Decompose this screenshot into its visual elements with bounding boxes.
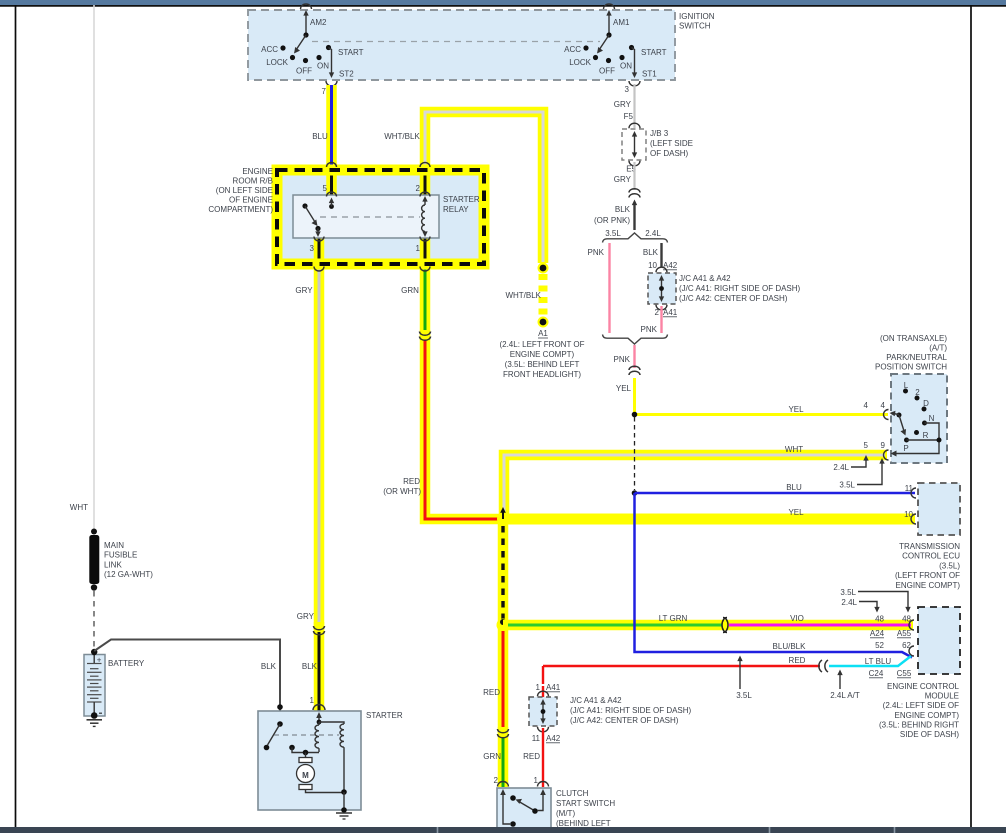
svg-text:BATTERY: BATTERY <box>108 659 145 668</box>
clutch start switch label <box>556 789 615 833</box>
wire GRY from ST1 <box>633 84 635 128</box>
connector RED/GRN <box>498 729 509 738</box>
ECM pin labels 48 48 <box>875 615 911 624</box>
wire VIO to ECM (highlighted) <box>729 624 911 627</box>
svg-text:A24: A24 <box>870 629 885 638</box>
svg-text:2: 2 <box>655 308 660 317</box>
svg-text:ST2: ST2 <box>339 70 354 79</box>
wire LT BLU to ECM <box>829 656 911 666</box>
svg-text:(OR PNK): (OR PNK) <box>594 216 630 225</box>
wire BLU/BLK down and to ECM <box>635 493 913 658</box>
park/neutral switch contacts <box>903 381 935 453</box>
node starter feed <box>277 704 283 710</box>
svg-text:3: 3 <box>310 244 315 253</box>
svg-text:62: 62 <box>902 641 911 650</box>
junction connector J/C A41 & A42 lower <box>529 691 557 732</box>
svg-text:11: 11 <box>905 484 914 493</box>
svg-text:RED: RED <box>483 688 500 697</box>
svg-text:3.5L: 3.5L <box>605 229 621 238</box>
svg-text:STARTER: STARTER <box>443 195 480 204</box>
svg-text:SIDE OF DASH): SIDE OF DASH) <box>900 730 959 739</box>
svg-text:P: P <box>903 444 908 453</box>
starter box <box>258 711 361 810</box>
relay pin entry arcs <box>314 163 430 272</box>
svg-text:YEL: YEL <box>788 405 804 414</box>
svg-text:(M/T): (M/T) <box>556 809 575 818</box>
svg-text:OFF: OFF <box>599 67 615 76</box>
mechanical link dashed line <box>312 41 600 43</box>
svg-text:STARTER: STARTER <box>366 711 403 720</box>
svg-text:BLU: BLU <box>786 483 802 492</box>
svg-text:PNK: PNK <box>614 355 631 364</box>
ignition switch AM2 pole <box>261 4 363 79</box>
TCU label <box>895 542 960 590</box>
starter switch <box>264 721 283 750</box>
relay switch <box>302 198 334 238</box>
bottom status bar <box>0 827 1006 833</box>
wire GRY relay pin 3 down (highlighted) <box>314 238 325 634</box>
transmission control ECU box <box>918 483 960 535</box>
svg-text:GRY: GRY <box>297 612 315 621</box>
svg-text:(J/C A41: RIGHT SIDE OF DASH): (J/C A41: RIGHT SIDE OF DASH) <box>570 706 692 715</box>
wire RED stub into J/C <box>542 686 544 697</box>
svg-text:OFF: OFF <box>296 67 312 76</box>
wire GRN relay pin 1 down (highlighted) <box>420 238 431 340</box>
svg-text:1: 1 <box>416 244 421 253</box>
svg-text:(LEFT FRONT OF: (LEFT FRONT OF <box>895 571 960 580</box>
pin 2 A41 label <box>655 308 678 317</box>
pin 1 A41 label <box>536 683 561 692</box>
svg-text:2.4L: 2.4L <box>645 229 661 238</box>
main fusible link <box>89 535 99 584</box>
wire LT GRN right (highlighted) <box>503 620 913 631</box>
svg-text:GRY: GRY <box>614 175 632 184</box>
node BLU junction <box>632 490 638 496</box>
svg-text:(12 GA-WHT): (12 GA-WHT) <box>104 570 153 579</box>
ECM pin pointer 2.4L <box>841 598 879 613</box>
park/neutral switch arm <box>890 411 907 436</box>
svg-text:SWITCH: SWITCH <box>679 22 711 31</box>
svg-text:1: 1 <box>536 683 541 692</box>
pin 10 A42 label <box>648 261 678 270</box>
wire GRY below J/B 3 <box>633 162 635 190</box>
svg-text:M: M <box>302 771 309 780</box>
svg-text:ENGINE COMPT): ENGINE COMPT) <box>895 711 960 720</box>
svg-text:FUSIBLE: FUSIBLE <box>104 551 137 560</box>
connector GRN/RED <box>420 332 431 341</box>
svg-text:YEL: YEL <box>616 384 632 393</box>
svg-text:AM2: AM2 <box>310 18 327 27</box>
ECM pin pointer 3.5L <box>840 588 910 613</box>
relay coil <box>422 196 428 237</box>
svg-text:START: START <box>641 48 667 57</box>
svg-text:5: 5 <box>323 184 328 193</box>
2.4L A/T wire pointer <box>830 670 860 701</box>
svg-text:BLK: BLK <box>615 205 631 214</box>
wire RED hidden dashed segment (highlighted) <box>498 521 509 623</box>
wire PNK 3.5L branch <box>608 243 610 333</box>
svg-text:ENGINE COMPT): ENGINE COMPT) <box>896 581 961 590</box>
starter ground <box>336 789 352 819</box>
svg-text:START SWITCH: START SWITCH <box>556 799 615 808</box>
clutch pin labels <box>494 776 539 785</box>
svg-text:F5: F5 <box>624 112 634 121</box>
svg-text:N: N <box>929 414 935 423</box>
svg-text:PNK: PNK <box>641 325 658 334</box>
svg-text:48: 48 <box>875 615 884 624</box>
junction node LT GRN <box>497 619 510 632</box>
svg-text:9: 9 <box>881 441 886 450</box>
svg-text:VIO: VIO <box>790 614 804 623</box>
starter motor M <box>297 758 345 793</box>
svg-text:1: 1 <box>310 696 315 705</box>
engine room relay box fill <box>277 170 484 264</box>
park/neutral switch label <box>875 334 948 372</box>
svg-text:3.5L: 3.5L <box>736 691 752 700</box>
relay box highlighted dashed border <box>277 170 484 264</box>
TCU pin entry arcs <box>911 488 916 524</box>
starter pull-in coil <box>315 722 319 752</box>
svg-text:LOCK: LOCK <box>266 58 288 67</box>
svg-text:7: 7 <box>322 87 327 96</box>
node fusible bottom <box>91 584 97 590</box>
wire BLK (OR PNK) <box>632 200 637 231</box>
ECM pin entry arcs <box>909 620 914 656</box>
svg-text:(A/T): (A/T) <box>929 344 947 353</box>
svg-text:A41: A41 <box>663 308 678 317</box>
svg-text:ROOM R/B: ROOM R/B <box>233 177 273 186</box>
junction connector J/C A41 & A42 upper <box>648 267 676 310</box>
svg-text:(LEFT SIDE: (LEFT SIDE <box>650 139 693 148</box>
hidden dashed link <box>634 417 636 490</box>
svg-text:ON: ON <box>317 62 329 71</box>
svg-text:2: 2 <box>416 184 421 193</box>
clutch switch <box>503 795 543 827</box>
svg-text:2.4L: 2.4L <box>833 463 849 472</box>
wire RED from junction to J/C A41 <box>542 666 544 684</box>
wire BLU to TCU pin 11 <box>635 492 916 495</box>
svg-text:GRN: GRN <box>401 286 419 295</box>
svg-text:A55: A55 <box>897 629 912 638</box>
svg-text:C55: C55 <box>897 669 912 678</box>
connector GRY/BLK chevrons <box>629 189 640 198</box>
wire PNK below J/C <box>660 306 662 333</box>
svg-text:2.4L A/T: 2.4L A/T <box>830 691 860 700</box>
svg-text:BLU/BLK: BLU/BLK <box>773 642 807 651</box>
wire GRN to clutch pin 2 (highlighted) <box>498 727 509 787</box>
svg-text:R: R <box>923 431 929 440</box>
battery ground <box>87 720 103 727</box>
svg-text:GRY: GRY <box>614 100 632 109</box>
svg-text:ACC: ACC <box>564 45 581 54</box>
svg-text:4: 4 <box>864 401 869 410</box>
wire PNK merged <box>633 345 635 368</box>
svg-text:J/C A41 & A42: J/C A41 & A42 <box>570 696 622 705</box>
starter pin 1 entry <box>313 705 325 725</box>
left frame line <box>15 5 17 827</box>
svg-text:WHT: WHT <box>785 445 803 454</box>
J/C A41 & A42 label upper <box>679 274 801 303</box>
svg-text:BLU: BLU <box>312 132 328 141</box>
svg-text:10: 10 <box>904 510 913 519</box>
wire RED to clutch pin 1 <box>542 728 544 787</box>
battery <box>84 650 105 716</box>
svg-text:BLK: BLK <box>643 248 659 257</box>
starter coil return <box>289 745 319 758</box>
relay internal dashed link <box>320 216 420 218</box>
svg-text:WHT: WHT <box>70 503 88 512</box>
engine room r/b label <box>208 167 273 214</box>
connector RED/LT BLU <box>819 660 828 672</box>
engine control module box <box>918 607 960 674</box>
svg-text:3.5L: 3.5L <box>839 481 855 490</box>
node fusible top <box>91 529 97 535</box>
svg-text:ENGINE CONTROL: ENGINE CONTROL <box>887 682 960 691</box>
top browser bar <box>0 0 1006 5</box>
clutch start switch box <box>497 788 551 832</box>
relay pin labels <box>310 184 421 253</box>
svg-text:RELAY: RELAY <box>443 205 469 214</box>
svg-text:LINK: LINK <box>104 560 122 569</box>
connector GRY/BLK <box>314 626 325 635</box>
connector arc pin 3 <box>629 81 640 86</box>
svg-text:(J/C A42: CENTER OF DASH): (J/C A42: CENTER OF DASH) <box>570 716 679 725</box>
svg-text:FRONT HEADLIGHT): FRONT HEADLIGHT) <box>503 370 581 379</box>
starter relay inner box <box>293 195 439 238</box>
svg-text:52: 52 <box>875 641 884 650</box>
connector LT GRN/VIO <box>722 618 728 633</box>
wire YEL thick to TCU pin 10 (highlighted) <box>500 514 915 525</box>
svg-text:(ON TRANSAXLE): (ON TRANSAXLE) <box>880 334 947 343</box>
svg-text:ENGINE: ENGINE <box>242 167 273 176</box>
ECM label <box>879 682 960 739</box>
wire YEL to park/neutral pin 4 <box>635 413 889 416</box>
svg-text:PNK: PNK <box>588 248 605 257</box>
dashed wire to battery <box>93 591 95 648</box>
svg-text:IGNITION: IGNITION <box>679 12 715 21</box>
svg-text:RED: RED <box>403 477 420 486</box>
svg-text:MODULE: MODULE <box>925 692 959 701</box>
svg-text:A1: A1 <box>538 329 548 338</box>
svg-text:4: 4 <box>881 401 886 410</box>
park/neutral pin entry arcs <box>884 410 889 461</box>
svg-text:A41: A41 <box>546 683 561 692</box>
svg-text:YEL: YEL <box>788 508 804 517</box>
svg-text:48: 48 <box>902 615 911 624</box>
svg-text:(ON LEFT SIDE: (ON LEFT SIDE <box>216 186 273 195</box>
svg-text:RED: RED <box>789 656 806 665</box>
A1 location note <box>499 340 584 379</box>
node battery minus <box>91 712 98 719</box>
J/B 3 label <box>650 129 693 158</box>
svg-text:(BEHIND LEFT: (BEHIND LEFT <box>556 819 611 828</box>
starter hold-in coil <box>319 722 344 792</box>
wire RED from clutch to right <box>543 665 820 667</box>
3.5L pin pointer <box>839 458 884 490</box>
svg-text:OF DASH): OF DASH) <box>650 149 689 158</box>
svg-text:CLUTCH: CLUTCH <box>556 789 589 798</box>
svg-text:11: 11 <box>532 734 541 743</box>
svg-text:2.4L: 2.4L <box>841 598 857 607</box>
merge brace <box>603 335 668 345</box>
svg-text:J/B 3: J/B 3 <box>650 129 669 138</box>
svg-text:GRY: GRY <box>295 286 313 295</box>
wire label RED (OR WHT) <box>383 477 421 496</box>
J/C A41 & A42 label lower <box>570 696 692 725</box>
top frame line <box>0 5 1006 7</box>
ignition switch box <box>248 10 675 80</box>
svg-text:WHT/BLK: WHT/BLK <box>505 291 541 300</box>
ignition switch AM1 pole <box>564 4 666 79</box>
svg-text:(3.5L: BEHIND RIGHT: (3.5L: BEHIND RIGHT <box>879 720 959 729</box>
wire WHT/BLK relay pin 2 up and right (highlighted) <box>425 112 543 263</box>
wire BLU ignition ST2 to relay pin 5 (highlighted) <box>326 85 337 196</box>
wire WHT from park/neutral switch left and down (highlighted) <box>504 455 887 517</box>
left gray column line <box>93 5 95 531</box>
svg-text:10: 10 <box>648 261 657 270</box>
svg-text:(3.5L): (3.5L) <box>939 561 960 570</box>
svg-text:(2.4L: LEFT SIDE OF: (2.4L: LEFT SIDE OF <box>883 701 959 710</box>
wire label BLK (OR PNK) <box>594 205 631 225</box>
svg-text:(J/C A42: CENTER OF DASH): (J/C A42: CENTER OF DASH) <box>679 294 788 303</box>
wire BLK 2.4L branch <box>660 243 662 267</box>
split brace <box>603 233 668 243</box>
svg-text:BLK: BLK <box>302 662 318 671</box>
park/neutral position switch box <box>891 374 947 463</box>
svg-text:ST1: ST1 <box>642 70 657 79</box>
svg-text:START: START <box>338 48 364 57</box>
svg-text:BLK: BLK <box>261 662 277 671</box>
svg-text:ON: ON <box>620 62 632 71</box>
node YEL junction <box>632 412 638 418</box>
starter internal dashed link <box>274 734 339 736</box>
svg-text:LT GRN: LT GRN <box>659 614 688 623</box>
svg-text:J/C A41 & A42: J/C A41 & A42 <box>679 274 731 283</box>
ECM pin labels 52 62 <box>875 641 911 650</box>
svg-text:RED: RED <box>523 752 540 761</box>
wire YEL down <box>633 378 636 415</box>
junction box J/B 3 <box>622 123 646 166</box>
svg-text:A42: A42 <box>546 734 561 743</box>
junction node arrow <box>497 507 509 525</box>
park/neutral N-P linkage <box>891 423 942 457</box>
connector A1 label <box>538 329 548 338</box>
svg-text:(3.5L: BEHIND LEFT: (3.5L: BEHIND LEFT <box>505 360 580 369</box>
right frame line <box>970 5 972 827</box>
svg-text:AM1: AM1 <box>613 18 630 27</box>
svg-text:LT BLU: LT BLU <box>865 657 892 666</box>
svg-text:COMPARTMENT): COMPARTMENT) <box>208 205 273 214</box>
svg-text:WHT/BLK: WHT/BLK <box>384 132 420 141</box>
connector arc pin 7 <box>326 81 337 86</box>
svg-text:MAIN: MAIN <box>104 541 124 550</box>
svg-text:ACC: ACC <box>261 45 278 54</box>
pin 11 A42 label <box>532 734 561 743</box>
main fusible link label <box>104 541 153 579</box>
ECM pin labels A24 A55 <box>870 629 912 638</box>
wire RED down to clutch (highlighted) <box>498 627 509 737</box>
svg-text:ENGINE COMPT): ENGINE COMPT) <box>510 350 575 359</box>
clutch pin entries <box>498 782 549 801</box>
svg-text:TRANSMISSION: TRANSMISSION <box>899 542 960 551</box>
wire WHT/BLK dashed branch to A1 <box>538 263 549 328</box>
svg-text:LOCK: LOCK <box>569 58 591 67</box>
park/neutral pin labels <box>864 401 886 450</box>
svg-text:POSITION SWITCH: POSITION SWITCH <box>875 363 947 372</box>
svg-text:GRN: GRN <box>483 752 501 761</box>
node battery plus <box>91 649 97 655</box>
wire BLK to starter pin 1 (highlighted) <box>314 622 325 712</box>
svg-text:(OR WHT): (OR WHT) <box>383 487 421 496</box>
svg-text:CONTROL ECU: CONTROL ECU <box>902 552 960 561</box>
svg-text:3: 3 <box>625 85 630 94</box>
wire RED (OR WHT) down and right (highlighted) <box>425 330 500 519</box>
svg-text:3.5L: 3.5L <box>840 588 856 597</box>
connector PNK/YEL <box>629 366 640 375</box>
2.4L pin pointer <box>833 455 868 472</box>
svg-text:5: 5 <box>864 441 869 450</box>
3.5L wire pointer <box>736 656 752 701</box>
TCU pin labels <box>904 484 913 519</box>
wire BLK battery to starter <box>94 640 280 725</box>
svg-text:(J/C A41: RIGHT SIDE OF DASH): (J/C A41: RIGHT SIDE OF DASH) <box>679 284 801 293</box>
svg-text:C24: C24 <box>869 669 884 678</box>
svg-text:PARK/NEUTRAL: PARK/NEUTRAL <box>886 353 947 362</box>
svg-text:OF ENGINE: OF ENGINE <box>229 196 273 205</box>
ECM pin labels C24 C55 <box>869 669 912 678</box>
svg-text:(2.4L: LEFT FRONT OF: (2.4L: LEFT FRONT OF <box>499 340 584 349</box>
